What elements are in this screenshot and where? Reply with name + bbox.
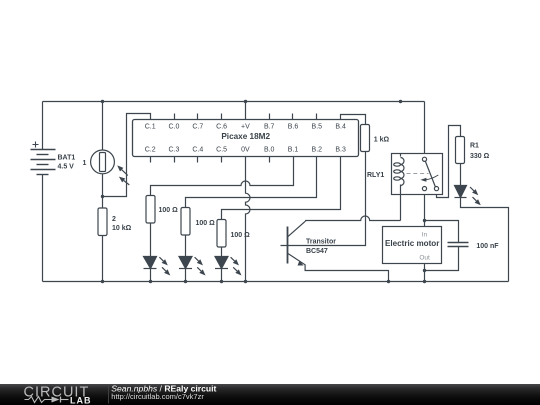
svg-text:B.4: B.4 xyxy=(335,124,346,131)
svg-text:100 Ω: 100 Ω xyxy=(196,220,216,227)
svg-text:B.2: B.2 xyxy=(312,147,323,154)
svg-text:B.6: B.6 xyxy=(288,124,299,131)
svg-text:C.5: C.5 xyxy=(216,147,227,154)
svg-text:In: In xyxy=(422,232,428,239)
svg-text:B.0: B.0 xyxy=(264,147,275,154)
svg-text:BAT1: BAT1 xyxy=(58,155,76,162)
svg-text:R1: R1 xyxy=(470,143,479,150)
svg-text:BC547: BC547 xyxy=(306,248,328,255)
svg-text:100 nF: 100 nF xyxy=(476,243,499,250)
svg-text:C.0: C.0 xyxy=(169,124,180,131)
svg-text:Picaxe 18M2: Picaxe 18M2 xyxy=(221,132,270,141)
svg-text:C.7: C.7 xyxy=(192,124,203,131)
svg-text:C.3: C.3 xyxy=(169,147,180,154)
svg-text:C.2: C.2 xyxy=(145,147,156,154)
svg-text:RLY1: RLY1 xyxy=(367,172,384,179)
svg-text:100 Ω: 100 Ω xyxy=(231,232,251,239)
svg-text:+V: +V xyxy=(241,124,250,131)
svg-text:0V: 0V xyxy=(241,147,250,154)
svg-text:1 kΩ: 1 kΩ xyxy=(374,136,390,143)
svg-text:B.3: B.3 xyxy=(335,147,346,154)
svg-text:2: 2 xyxy=(112,216,116,223)
svg-text:C.4: C.4 xyxy=(192,147,203,154)
svg-text:4.5 V: 4.5 V xyxy=(58,164,75,171)
svg-text:C.1: C.1 xyxy=(145,124,156,131)
svg-text:http://circuitlab.com/c7vk7zr: http://circuitlab.com/c7vk7zr xyxy=(111,392,204,401)
svg-text:Transitor: Transitor xyxy=(306,239,336,246)
svg-text:Out: Out xyxy=(419,255,430,262)
svg-text:Electric motor: Electric motor xyxy=(385,239,440,248)
svg-text:C.6: C.6 xyxy=(216,124,227,131)
svg-text:1: 1 xyxy=(83,160,87,167)
svg-text:330 Ω: 330 Ω xyxy=(470,153,490,160)
svg-text:B.7: B.7 xyxy=(264,124,275,131)
svg-text:LAB: LAB xyxy=(70,395,92,405)
svg-text:B.1: B.1 xyxy=(288,147,299,154)
svg-text:100 Ω: 100 Ω xyxy=(159,207,179,214)
svg-text:B.5: B.5 xyxy=(312,124,323,131)
svg-text:10 kΩ: 10 kΩ xyxy=(112,225,132,232)
